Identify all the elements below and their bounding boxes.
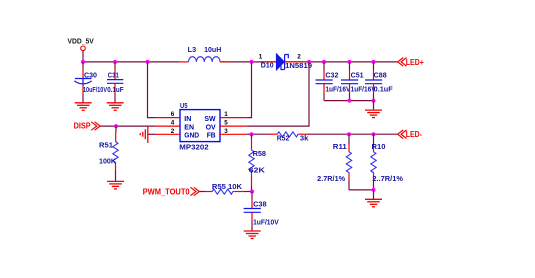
svg-text:C88: C88 [374, 72, 387, 79]
resistor R51 [113, 126, 118, 181]
svg-text:2: 2 [171, 128, 175, 135]
svg-text:1uF/16V: 1uF/16V [351, 86, 376, 93]
junction node D10 cathode / OV branch [307, 60, 311, 64]
svg-text:R55 10K: R55 10K [212, 184, 242, 191]
resistor R52 [270, 132, 306, 137]
svg-text:62K: 62K [249, 168, 265, 175]
svg-text:R10: R10 [372, 144, 386, 151]
junction node C32 [322, 60, 326, 64]
junction node R10 top [372, 132, 376, 136]
svg-text:1uF/10V: 1uF/10V [253, 220, 279, 227]
wire R11/R10 bottom bus [349, 189, 374, 191]
svg-text:MP3202: MP3202 [179, 145, 208, 152]
svg-text:C31: C31 [108, 72, 119, 79]
resistor R11 [346, 134, 351, 190]
svg-text:1N5819: 1N5819 [285, 63, 312, 70]
svg-text:D10: D10 [261, 62, 274, 69]
svg-text:C32: C32 [325, 72, 338, 79]
IC U5 MP3202 body [180, 110, 220, 142]
resistor R55 [200, 189, 252, 194]
U5 pin 6 IN stub [155, 117, 180, 119]
junction node PWM/R58/C38 [250, 190, 254, 194]
svg-text:0.1uF: 0.1uF [374, 86, 394, 93]
svg-text:VDD_5V: VDD_5V [68, 38, 95, 45]
wire top rail net L3 to LED+ [220, 61, 398, 63]
resistor R58 [249, 134, 254, 191]
capacitor C88 [365, 62, 382, 101]
junction node VDD/C30 [81, 60, 85, 64]
svg-text:GND: GND [184, 133, 199, 140]
svg-text:EN: EN [184, 124, 194, 131]
svg-text:2: 2 [297, 53, 301, 60]
port LED- [398, 130, 407, 139]
junction node R11 top [347, 132, 351, 136]
svg-text:1uF/16V: 1uF/16V [325, 86, 350, 93]
diode D10 1N5819 schottky [266, 54, 302, 70]
wire top rail net VDD to L3 [83, 61, 179, 63]
ground under capacitor bus [365, 110, 382, 118]
capacitor C31 [107, 62, 123, 102]
capacitor C32 [316, 62, 333, 101]
power symbol VDD_5V [81, 46, 86, 62]
svg-text:LED+: LED+ [406, 58, 424, 67]
svg-text:6: 6 [171, 111, 175, 118]
junction node DISP/R51/EN [114, 124, 118, 128]
svg-text:10uH: 10uH [204, 47, 221, 54]
svg-text:C38: C38 [253, 201, 267, 208]
ground under R51 [107, 181, 124, 189]
wire GND pin to rotated ground [148, 133, 155, 135]
svg-text:R51: R51 [99, 143, 113, 150]
junction node R10 bottom [372, 188, 376, 192]
svg-text:2..7R/1%: 2..7R/1% [372, 176, 403, 183]
capacitor C30 [74, 62, 91, 102]
svg-text:U5: U5 [180, 103, 188, 110]
U5 pin 3 FB stub [220, 133, 246, 135]
junction node FB/R58/R52 [250, 132, 254, 136]
U5 pin 1 SW stub [220, 117, 246, 119]
svg-text:3: 3 [224, 128, 228, 135]
svg-text:C30: C30 [84, 72, 97, 79]
svg-text:10uF/10V: 10uF/10V [83, 87, 107, 94]
wire FB to junction [246, 133, 270, 135]
wire DISP to EN pin 4 [100, 125, 154, 127]
svg-text:1: 1 [224, 111, 228, 118]
junction node C31 [113, 60, 117, 64]
inductor L3 [179, 57, 229, 62]
svg-text:DISP: DISP [74, 122, 92, 131]
ground under C31 [107, 103, 124, 111]
junction node IN branch [146, 60, 150, 64]
svg-text:R11: R11 [333, 144, 347, 151]
svg-text:IN: IN [184, 116, 191, 123]
ground under R11/R10 bus [365, 199, 382, 207]
U5 pin 4 EN stub [155, 125, 180, 127]
svg-text:0.1uF: 0.1uF [107, 87, 124, 94]
ground under C38 [244, 231, 261, 239]
port DISP [91, 122, 100, 130]
svg-text:C51: C51 [351, 72, 364, 79]
svg-text:2.7R/1%: 2.7R/1% [317, 176, 346, 183]
ground rotated at U5 GND pin [140, 125, 148, 143]
svg-text:L3: L3 [188, 47, 197, 54]
junction node C51 bottom [348, 99, 352, 103]
wire stem to ground from cap bus [373, 101, 375, 110]
svg-text:4: 4 [171, 120, 175, 127]
wire OV branch from top rail to pin 5 [246, 62, 309, 126]
svg-text:PWM_TOUT0: PWM_TOUT0 [143, 187, 191, 196]
ground under C30 [75, 103, 92, 111]
junction node C88 [372, 60, 376, 64]
svg-text:5: 5 [224, 120, 228, 127]
U5 pin 2 GND stub [155, 133, 180, 135]
resistor R10 [371, 134, 376, 190]
svg-text:R52: R52 [277, 136, 290, 143]
svg-text:SW: SW [204, 116, 216, 123]
wire IN branch from top rail to pin 6 [148, 62, 155, 118]
capacitor C51 [341, 62, 358, 101]
wire SW branch from top rail to pin 1 [246, 62, 251, 118]
capacitor C38 [244, 192, 261, 231]
svg-text:OV: OV [206, 124, 216, 131]
svg-text:100K: 100K [99, 159, 116, 166]
svg-text:3k: 3k [300, 136, 309, 143]
svg-text:R58: R58 [253, 151, 267, 158]
junction node SW branch [250, 60, 254, 64]
wire stem to ground from R10 bottom [373, 190, 375, 199]
junction node C51 [348, 60, 352, 64]
junction node C88 bottom [372, 99, 376, 103]
port PWM_TOUT0 [190, 187, 199, 195]
svg-text:FB: FB [207, 133, 216, 140]
port LED+ [398, 58, 407, 67]
svg-text:LED-: LED- [406, 130, 422, 139]
svg-text:1: 1 [259, 53, 263, 60]
wire capacitor bottom bus C32-C51-C88 [324, 100, 374, 102]
U5 pin 5 OV stub [220, 125, 246, 127]
wire R52 to LED- port [306, 133, 398, 135]
